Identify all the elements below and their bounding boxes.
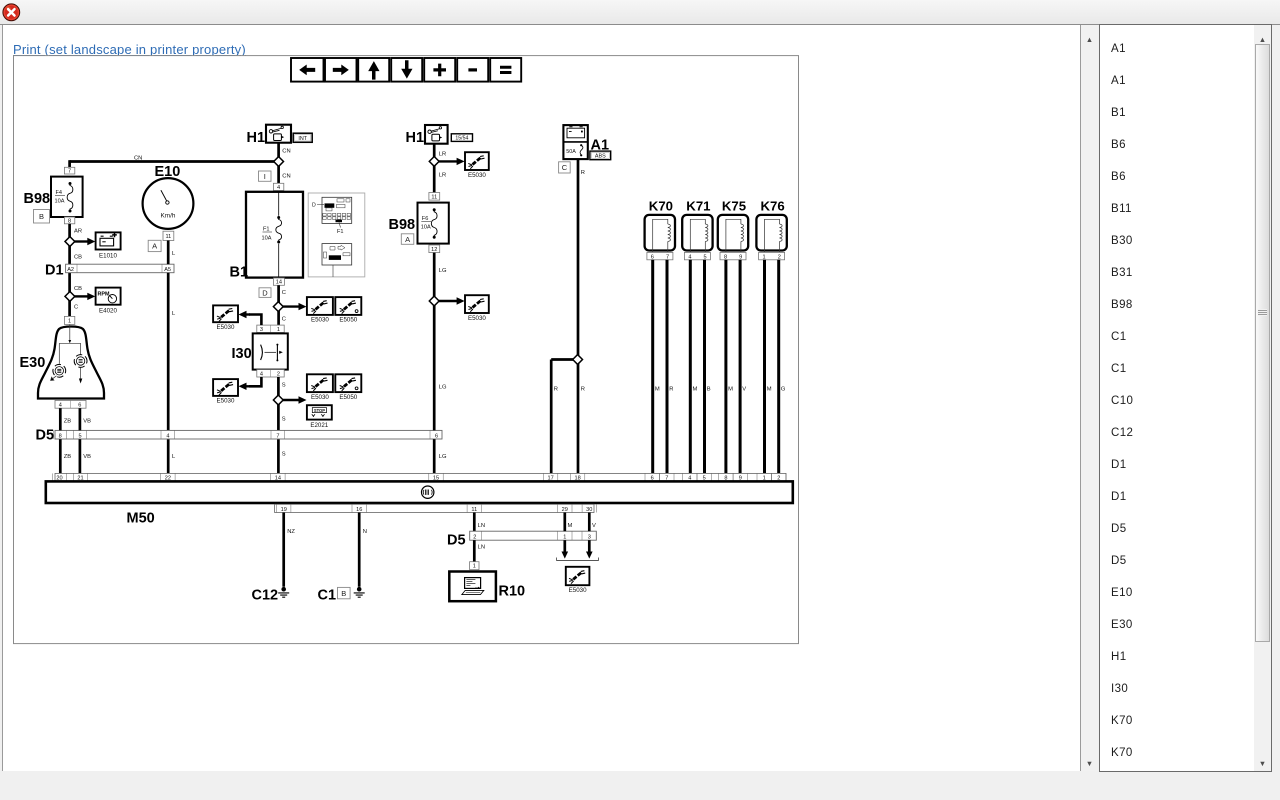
svg-text:H1: H1 (406, 130, 425, 146)
arrow to E1010 (75, 238, 96, 245)
svg-text:LG: LG (439, 385, 447, 391)
toolbar button pan-down (391, 58, 422, 82)
wire VB from E30 pin 6 to D5 (79, 408, 82, 430)
connector bar D5 (lower) (470, 531, 597, 540)
wire LR from H1 to B98 pin 11 (433, 144, 436, 193)
pin 4 of B1 (273, 183, 283, 191)
svg-text:V: V (592, 523, 596, 529)
connector letter box I (259, 171, 272, 181)
relay coil K71 (682, 198, 712, 260)
svg-text:4: 4 (260, 372, 263, 378)
toolbar button pan-up (358, 58, 389, 82)
svg-text:8: 8 (59, 433, 62, 439)
svg-text:3: 3 (260, 327, 263, 333)
svg-text:CN: CN (134, 155, 142, 161)
wire from I30 pin 3 (249, 315, 261, 326)
wire V from K75 pin 9 to M50 (739, 260, 742, 474)
svg-text:D1: D1 (45, 263, 64, 279)
svg-text:Km/h: Km/h (161, 213, 176, 220)
wire N from M50 pin 16 to ground C1 (358, 513, 361, 587)
connector letter box D (259, 288, 271, 298)
svg-text:B: B (39, 212, 44, 221)
ground point E5030 (I30 pin 4) (213, 379, 238, 405)
pin 14 of B1 (273, 278, 284, 286)
svg-text:2: 2 (277, 372, 280, 378)
toolbar button pan-left (291, 58, 324, 82)
svg-text:E30: E30 (20, 355, 46, 371)
svg-text:1: 1 (277, 327, 280, 333)
diagram frame (14, 56, 799, 644)
wire S from I30 pin 2 to D5 (277, 377, 280, 430)
svg-text:E4020: E4020 (99, 307, 117, 314)
wire L from D5 to M50 (167, 439, 170, 473)
svg-text:A: A (405, 235, 410, 244)
svg-text:29: 29 (562, 507, 568, 513)
pin row below M50 (275, 504, 597, 513)
stop lights E2021 (307, 405, 332, 429)
svg-text:LN: LN (478, 523, 485, 529)
svg-text:CN: CN (282, 148, 290, 154)
svg-text:11: 11 (165, 234, 171, 240)
svg-text:10A: 10A (421, 225, 431, 231)
list scrollbar (1254, 25, 1271, 771)
svg-text:B98: B98 (389, 217, 416, 233)
wire S from D5 to M50 (277, 439, 280, 473)
svg-text:8: 8 (68, 218, 71, 224)
svg-text:4: 4 (688, 254, 691, 260)
junction node on LR wire (429, 157, 439, 167)
wire R from A1 to M50 pin 18 (577, 159, 580, 473)
label box ABS (590, 151, 611, 160)
pin 7 of B98 (64, 167, 74, 174)
arrow to E5030/E5050/E2021 (283, 396, 307, 403)
svg-text:E5050: E5050 (339, 394, 357, 401)
speedometer E10 (143, 178, 194, 229)
wire CB/C from D1 to E30 pin 1 (68, 273, 71, 317)
svg-text:S: S (282, 383, 286, 389)
svg-text:E5030: E5030 (468, 172, 486, 179)
label box 15/54 (451, 134, 472, 142)
svg-text:B1: B1 (230, 265, 249, 281)
svg-text:A2: A2 (67, 267, 74, 273)
svg-text:LG: LG (439, 268, 447, 274)
svg-text:F4: F4 (56, 190, 63, 196)
pin 1 of R10 (470, 562, 479, 570)
connector letter box A (148, 240, 161, 251)
ground point E5030 (S wire) (307, 374, 333, 401)
svg-text:K70: K70 (649, 198, 673, 213)
svg-text:E5030: E5030 (217, 324, 235, 331)
fusebox B98 (F4 10A) (51, 177, 83, 217)
svg-text:A: A (152, 242, 157, 251)
svg-text:ZB: ZB (64, 454, 72, 460)
junction node on S wire (273, 395, 283, 405)
svg-text:C1: C1 (318, 588, 337, 604)
svg-text:M: M (655, 387, 660, 393)
wire R from K70 pin 7 to M50 (666, 260, 669, 474)
svg-text:CB: CB (74, 286, 82, 292)
pin 1 of E30 (64, 316, 74, 324)
svg-text:7: 7 (666, 254, 669, 260)
svg-text:R: R (581, 170, 585, 176)
wire L from D1 to D5 (167, 273, 170, 431)
junction node on CB/C wire (65, 292, 75, 302)
svg-text:ABS: ABS (595, 154, 606, 160)
relay coil K76 (756, 198, 786, 260)
wire ZB from E30 pin 4 to D5 (59, 408, 62, 430)
wire CN bus horizontal (70, 160, 279, 163)
list scrollbar thumb (1255, 44, 1270, 642)
svg-text:15/54: 15/54 (455, 136, 468, 142)
svg-text:AR: AR (74, 228, 82, 234)
junction node on C wire (273, 302, 283, 312)
svg-text:LR: LR (439, 172, 446, 178)
wire M from M50 pin 29 to D5 (563, 513, 566, 532)
diagnostic socket R10 (449, 572, 496, 602)
pin row above M50 (52, 473, 786, 481)
svg-text:V: V (742, 387, 746, 393)
junction node CN bus to H1 (274, 157, 284, 167)
svg-text:D5: D5 (447, 533, 466, 549)
dashboard wiring unit M50 (46, 481, 793, 503)
ground point E5050 (C wire) (335, 297, 361, 324)
wire CN from H1 to B1 pin 4 (277, 143, 280, 184)
ground C1 (354, 587, 365, 597)
wire M from K76 pin 1 to M50 (763, 260, 766, 474)
wire C from B1 pin 14 to I30 pin 1 (277, 285, 280, 325)
svg-text:VB: VB (83, 418, 91, 424)
arrow to E5030 (LR) (439, 158, 465, 165)
ground point E5030 (LR wire) (465, 152, 489, 179)
svg-text:4: 4 (166, 433, 169, 439)
ground point E5050 (S wire) (335, 374, 361, 401)
pin 8 of B98 (64, 217, 74, 224)
svg-text:C: C (74, 305, 78, 311)
svg-text:S: S (282, 417, 286, 423)
wire B from K71 pin 5 to M50 (703, 260, 706, 474)
pin 11 of B98 right (429, 193, 440, 201)
wire M from K70 pin 6 to M50 (651, 260, 654, 474)
connector letter box B (C1) (338, 587, 351, 598)
relay coil K75 (718, 198, 748, 260)
junction node on LG wire (429, 296, 439, 306)
component list box (1099, 24, 1272, 772)
svg-text:6: 6 (78, 403, 81, 409)
svg-text:E5030: E5030 (217, 398, 235, 405)
wire LN from D5 to R10 pin 1 (473, 540, 476, 562)
svg-text:NZ: NZ (287, 529, 295, 535)
svg-text:LN: LN (478, 545, 485, 551)
fusebox B1 (F1 10A) (246, 192, 303, 278)
top border line (0, 24, 1280, 25)
svg-text:1: 1 (68, 318, 71, 324)
svg-text:STOP: STOP (314, 408, 325, 413)
pin row 3,1 of I30 (257, 325, 284, 333)
ground point E5030 (bottom) (566, 567, 590, 594)
bracket above E5030 (557, 558, 599, 561)
svg-text:C: C (282, 316, 286, 322)
svg-text:M: M (568, 523, 573, 529)
wire ZB from D5 to M50 (59, 439, 62, 473)
svg-text:R: R (554, 387, 558, 393)
arrow to E4020 (75, 293, 96, 300)
svg-text:I30: I30 (232, 346, 252, 362)
connector letter box A (right) (401, 234, 414, 245)
svg-text:CB: CB (74, 255, 82, 261)
pin 11 of E10 (163, 231, 174, 240)
svg-text:K71: K71 (686, 198, 710, 213)
svg-text:50A: 50A (566, 149, 576, 155)
ground point E1010 (battery) (96, 232, 121, 259)
close button (2, 3, 21, 22)
svg-text:M: M (728, 387, 733, 393)
svg-text:1: 1 (563, 534, 566, 540)
svg-text:F1: F1 (337, 229, 344, 235)
svg-text:2: 2 (473, 534, 476, 540)
junction node on R wire (573, 355, 583, 365)
svg-text:19: 19 (281, 507, 287, 513)
label box INT (293, 133, 312, 142)
svg-text:E5050: E5050 (339, 317, 357, 324)
svg-text:B98: B98 (24, 191, 51, 207)
arrow into E5030 (pin 3) (239, 311, 251, 318)
svg-text:E5030: E5030 (311, 317, 329, 324)
svg-text:E1010: E1010 (99, 252, 117, 259)
svg-text:I: I (264, 172, 266, 181)
wire R branch to pin 17 (551, 360, 573, 474)
connector bar D5 (upper) (54, 430, 443, 439)
wire LG from D5 to M50 (433, 439, 436, 473)
battery feed A1 (563, 125, 587, 159)
svg-text:A5: A5 (164, 267, 171, 273)
svg-text:6: 6 (651, 254, 654, 260)
wire M from D5 pin 1 with arrow down (562, 540, 569, 558)
svg-text:5: 5 (704, 254, 707, 260)
svg-text:4: 4 (277, 185, 280, 191)
wire L from E10 pin 11 to D1 (167, 241, 170, 265)
wire VB from D5 to M50 (79, 439, 82, 473)
toolbar button zoom-out (457, 58, 488, 82)
svg-text:N: N (363, 529, 367, 535)
connector letter box C (559, 162, 571, 173)
wire from I30 pin 4 (249, 377, 261, 386)
wire V from M50 pin 30 to D5 (588, 513, 591, 532)
svg-text:10A: 10A (55, 198, 65, 204)
svg-text:D: D (262, 288, 268, 297)
svg-text:G: G (781, 387, 786, 393)
connector bar D1 (66, 264, 174, 273)
svg-text:7: 7 (276, 433, 279, 439)
svg-text:R: R (581, 387, 585, 393)
pin row 4,6 of E30 (55, 400, 86, 408)
svg-text:H1: H1 (247, 130, 266, 146)
ignition switch H1 icon box (266, 125, 291, 143)
svg-text:C: C (282, 290, 286, 296)
arrow to E5030 (LG) (439, 297, 465, 304)
svg-text:3: 3 (588, 534, 591, 540)
toolbar button pan-right (325, 58, 357, 82)
svg-text:B: B (707, 387, 711, 393)
svg-text:16: 16 (356, 507, 362, 513)
right border of content (1080, 25, 1081, 771)
svg-text:11: 11 (471, 507, 477, 513)
svg-text:E2021: E2021 (310, 422, 328, 429)
svg-text:S: S (282, 452, 286, 458)
wire V from D5 pin 3 with arrow down (586, 540, 593, 558)
svg-text:30: 30 (586, 507, 592, 513)
fuse location inset detail (308, 193, 365, 277)
svg-text:5: 5 (78, 433, 81, 439)
svg-text:14: 14 (276, 280, 282, 286)
wire AR/CB from B98 pin 8 to D1 (68, 224, 71, 264)
svg-text:RPM: RPM (98, 291, 110, 297)
titlebar (0, 0, 1280, 24)
ground C12 (278, 587, 289, 597)
svg-text:11: 11 (431, 194, 437, 200)
svg-text:D: D (312, 202, 316, 208)
svg-text:R10: R10 (499, 584, 526, 600)
relay I30 (253, 333, 288, 369)
junction node on AR/CB wire (65, 237, 75, 247)
svg-text:2: 2 (778, 254, 781, 260)
ground point E4020 (rev counter) (96, 288, 121, 315)
wire G from K76 pin 2 to M50 (777, 260, 780, 474)
pin 12 of B98 right (429, 245, 440, 253)
wire M from K71 pin 4 to M50 (689, 260, 692, 474)
fusebox B98 (F6 10A) (418, 203, 449, 244)
wire M from K75 pin 8 to M50 (724, 260, 727, 474)
ground point E5030 (C wire) (307, 297, 333, 324)
svg-text:K76: K76 (760, 198, 784, 213)
main content scrollbar (1081, 25, 1098, 771)
wire NZ from M50 pin 19 to ground C12 (282, 513, 285, 587)
svg-text:8: 8 (724, 254, 727, 260)
svg-text:VB: VB (83, 454, 91, 460)
wire LG from B98 pin 12 to D5 (433, 253, 436, 431)
svg-text:1: 1 (473, 564, 476, 570)
svg-text:ZB: ZB (64, 418, 72, 424)
svg-text:M: M (767, 387, 772, 393)
left border line (2, 25, 3, 771)
svg-text:LR: LR (439, 151, 446, 157)
relay coil K70 (645, 198, 675, 260)
ground point E5030 (I30 pin 3) (213, 305, 238, 331)
svg-text:E5030: E5030 (468, 315, 486, 322)
toolbar button zoom-in (424, 58, 455, 82)
svg-text:1: 1 (763, 254, 766, 260)
arrow into E5030 (pin 4) (239, 383, 251, 390)
svg-text:K75: K75 (722, 198, 746, 213)
arrow to E5030/E5050 (283, 303, 307, 310)
svg-text:C: C (562, 163, 568, 172)
svg-text:12: 12 (431, 247, 437, 253)
svg-text:M: M (693, 387, 698, 393)
svg-text:C12: C12 (252, 588, 279, 604)
svg-text:B: B (341, 589, 346, 598)
svg-text:10A: 10A (262, 235, 272, 241)
instrument cluster E30 (38, 325, 104, 399)
svg-text:D5: D5 (36, 427, 55, 443)
wire CN drop to B98 pin 7 (68, 160, 71, 167)
svg-text:R: R (669, 387, 673, 393)
wire LN from M50 pin 11 to D5 (473, 513, 476, 532)
svg-text:INT: INT (298, 136, 307, 142)
pin row 4,2 of I30 (257, 370, 284, 378)
main white content (3, 25, 1080, 771)
svg-text:E5030: E5030 (569, 587, 587, 594)
svg-text:9: 9 (739, 254, 742, 260)
print link (13, 42, 246, 57)
svg-text:4: 4 (59, 403, 62, 409)
svg-text:6: 6 (435, 433, 438, 439)
svg-text:CN: CN (282, 174, 290, 180)
toolbar button zoom-fit (490, 58, 521, 82)
ignition switch H1 icon box (right) (425, 125, 448, 144)
svg-text:LG: LG (439, 454, 447, 460)
ground point E5030 (LG wire) (465, 295, 489, 322)
svg-text:7: 7 (68, 169, 71, 175)
connector letter box B (34, 210, 50, 224)
svg-text:E5030: E5030 (311, 394, 329, 401)
svg-text:M50: M50 (127, 510, 155, 526)
